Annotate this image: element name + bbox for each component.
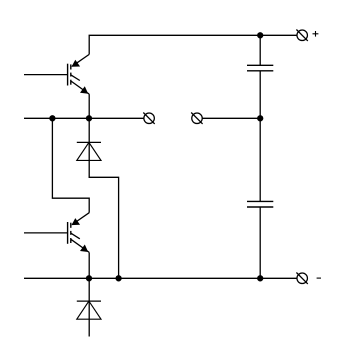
transistor Q2 (lower IGBT) [24, 213, 89, 253]
Q2 channel bottom dash [70, 238, 72, 243]
junction node: top bus / C1 top [257, 32, 263, 38]
terminal X3 (phase output, right) [191, 113, 202, 124]
terminal X2 (phase output, left) [143, 113, 154, 124]
Q1 channel bottom dash [70, 80, 72, 85]
wire: middle bus through D1 to jog, x=89.2 [88, 118, 90, 177]
terminal X4 (- DC input) [296, 273, 307, 284]
Q2 channel middle dash [70, 231, 72, 235]
junction node: bottom bus / D1 anode branch [115, 275, 121, 281]
wire: Q2 collector branch from middle bus with jog [52, 118, 89, 212]
wire: midpoint link from terminal X3 to right bus [202, 117, 260, 119]
Q1 gate lead [24, 74, 68, 76]
wire: bottom bus from left end to - terminal [24, 277, 297, 279]
capacitor C1 [247, 65, 273, 71]
Q1 collector arrowhead [72, 60, 81, 67]
label: - polarity mark [317, 277, 321, 279]
Q2 body diagonal [71, 233, 80, 239]
Q2 emitter diagonal [71, 239, 89, 252]
wire: jog from D1 anode down to bottom bus [89, 177, 119, 278]
Q1 emitter arrowhead [80, 86, 88, 94]
capacitor C2 [247, 201, 273, 207]
D2 triangle (anode) [77, 301, 101, 319]
wire: right bus, C1 bottom plate to C2 top plate [259, 71, 261, 202]
Q1 body diagonal [71, 75, 80, 81]
Q2 emitter arrowhead [80, 245, 88, 253]
Q2 gate bar [67, 222, 69, 244]
junction node: bottom bus / C2 bottom [257, 275, 263, 281]
D1 triangle (anode) [77, 142, 101, 160]
Q1 collector diagonal [72, 54, 89, 66]
Q1 gate bar [67, 64, 69, 86]
Q2 channel top dash [70, 223, 72, 228]
D1 cathode bar [77, 141, 101, 143]
junction node: right bus / midpoint link [257, 115, 263, 121]
wire: bottom bus through D2, open stub [88, 278, 90, 336]
junction node: bottom bus / Q2 emitter and D2 cathode [86, 275, 92, 281]
junction node: middle bus / Q1 emitter and D1 cathode [86, 115, 92, 121]
transistor Q1 (upper IGBT) [24, 54, 89, 94]
wire: middle output bus [24, 117, 144, 119]
diode D1 (freewheel diode across Q2) [77, 142, 101, 160]
wire: Q2 emitter to bottom bus [88, 252, 90, 278]
D2 cathode bar [77, 300, 101, 302]
wire: right bus, top bus to C1 top plate [259, 35, 261, 65]
Q1 emitter diagonal [71, 81, 89, 94]
Q2 collector diagonal [72, 213, 89, 225]
Q1 channel middle dash [70, 73, 72, 77]
junction node: middle bus / Q2 collector branch [49, 115, 55, 121]
terminal X1 (+ DC input) [296, 30, 307, 41]
wire: right bus, C2 bottom plate to bottom bus [259, 207, 261, 278]
wire: Q1 emitter to middle bus [88, 94, 90, 118]
Q2 collector arrowhead [72, 218, 81, 225]
wire: Q1 collector riser and top bus to + terminal [89, 35, 297, 54]
Q2 gate lead [24, 232, 68, 234]
label: + polarity mark [313, 31, 319, 37]
Q1 channel top dash [70, 64, 72, 69]
diode D2 (freewheel diode across Q1, below bottom bus) [77, 301, 101, 319]
